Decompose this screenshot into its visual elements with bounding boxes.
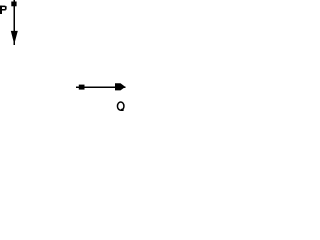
- label Q: [117, 102, 124, 111]
- wire (vector P shaft, pointing down): [13, 0, 15, 45]
- label P: [0, 6, 7, 14]
- node (vector P origin square): [11, 2, 16, 7]
- arrowhead (vector P, pointing down): [11, 31, 18, 44]
- wire (vector Q shaft, pointing right): [76, 86, 126, 88]
- node (vector Q origin square): [79, 85, 85, 90]
- arrowhead (vector Q, pointing right): [115, 83, 125, 90]
